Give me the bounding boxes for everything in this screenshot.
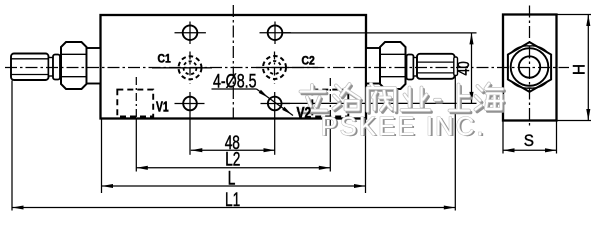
right boss	[366, 48, 380, 84]
horizontal main centerline	[5, 67, 569, 69]
right rod end cap	[454, 57, 458, 76]
mounting hole top-left	[175, 22, 206, 45]
right hex nut	[380, 42, 406, 89]
mounting hole top-right	[260, 22, 291, 45]
left knurled knob	[11, 54, 49, 81]
dimension H	[557, 15, 592, 121]
left boss	[87, 48, 101, 84]
dimension 40 extensions	[283, 32, 477, 34]
valve body main view	[101, 15, 367, 119]
V2 dashed square	[312, 90, 348, 117]
side view vertical centerline	[529, 6, 531, 129]
right rod face lines	[418, 61, 455, 63]
right threaded rod	[417, 54, 455, 79]
port C1 dashed circles	[152, 52, 212, 85]
mounting hole bottom-left	[175, 92, 205, 155]
right washer	[407, 55, 414, 80]
dimension L1	[12, 76, 455, 211]
leader line for 4-d8.5	[257, 89, 294, 116]
svg-text:40: 40	[454, 61, 473, 75]
mounting hole bottom-right	[261, 92, 291, 155]
dimension S	[503, 121, 557, 154]
svg-text:C1: C1	[158, 53, 171, 66]
svg-text:H: H	[570, 64, 589, 75]
left nut flat lines	[61, 53, 87, 55]
side hex nut outline	[508, 42, 551, 92]
watermark char hai	[476, 84, 505, 112]
V1 centerline	[135, 77, 137, 117]
vertical body centerline	[232, 5, 234, 121]
dimension L2	[136, 119, 330, 172]
watermark char fa	[368, 84, 397, 113]
leader arrow 1	[259, 90, 269, 98]
side nut chamfer circle	[511, 48, 549, 86]
svg-text:C2: C2	[302, 55, 315, 68]
label 4-d8.5	[212, 71, 257, 92]
side nut chamfer arcs	[511, 46, 548, 88]
watermark char shang	[450, 85, 471, 113]
leader arrow 2	[282, 107, 292, 115]
svg-text:L: L	[228, 167, 236, 189]
svg-text:S: S	[524, 131, 534, 150]
watermark char li	[299, 85, 329, 113]
dimension 48	[191, 132, 275, 154]
watermark char ye	[402, 88, 432, 113]
V2 centerline	[329, 78, 331, 117]
side view square	[503, 15, 557, 121]
watermark char luo	[334, 84, 362, 112]
svg-text:PSKEE INC.: PSKEE INC.	[321, 113, 486, 141]
dimension L	[102, 119, 366, 193]
right neck	[414, 58, 418, 77]
svg-text:L1: L1	[225, 189, 240, 211]
left neck	[49, 58, 54, 77]
svg-text:V2: V2	[297, 103, 312, 121]
left hex nut	[61, 42, 87, 89]
left knob face lines	[12, 58, 49, 60]
right nut flat lines	[380, 53, 406, 55]
watermark separator dot	[435, 100, 442, 102]
side thread hole	[519, 56, 540, 77]
V1 dashed square	[117, 90, 153, 117]
svg-text:V1: V1	[156, 97, 169, 114]
left washer	[53, 55, 60, 80]
port C2 dashed circles	[256, 52, 318, 85]
watermark row1 gray shadow+white emboss	[299, 84, 505, 114]
dimension 40	[454, 33, 473, 104]
